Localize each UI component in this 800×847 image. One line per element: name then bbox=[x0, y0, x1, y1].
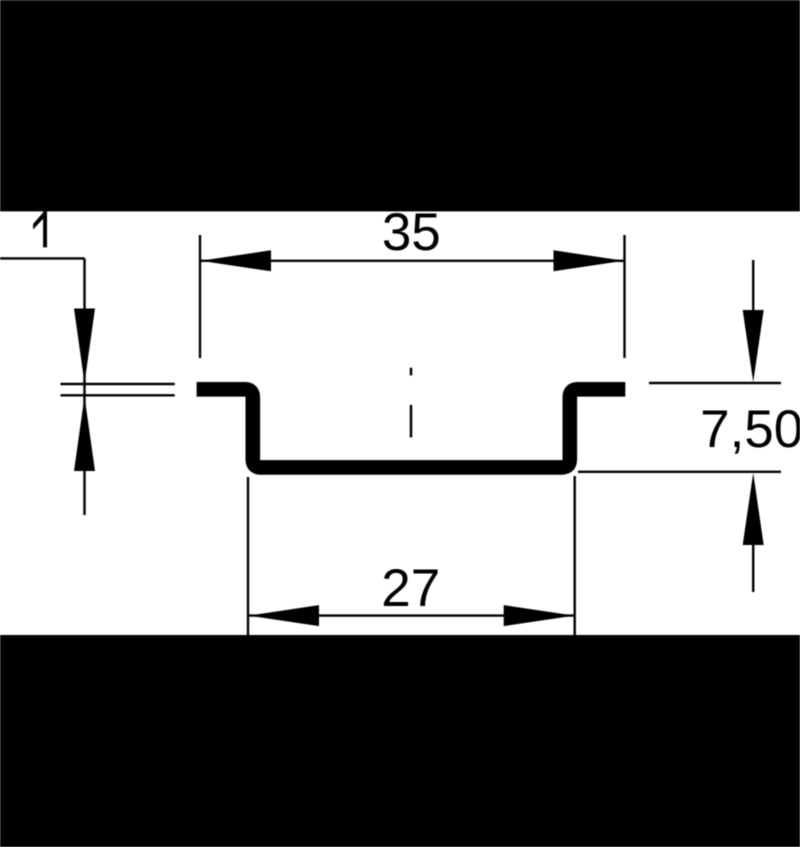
7,50 dim lower arrowhead (up) bbox=[743, 473, 764, 545]
27 dim left arrowhead bbox=[249, 605, 320, 626]
svg-text:35: 35 bbox=[382, 203, 441, 262]
label 1 leader horizontal line bbox=[0, 257, 85, 259]
bottom letterbox bar bbox=[0, 635, 800, 847]
label 1 glyph (drawn, Arial-style without foot serif) bbox=[33, 211, 47, 247]
7,50 dim upper line segment bbox=[752, 260, 754, 312]
35 dim left extension line bbox=[199, 235, 201, 358]
dim 1 upper arrowhead (down) bbox=[74, 309, 95, 384]
7,50 dim lower extension line bbox=[578, 471, 781, 473]
svg-text:7,50: 7,50 bbox=[700, 400, 800, 459]
27 dim left extension line bbox=[247, 477, 249, 636]
35 dim right arrowhead bbox=[554, 250, 625, 271]
dimension 1 vertical line bbox=[83, 258, 85, 515]
material thickness top surface line bbox=[61, 383, 175, 385]
27 dim right extension line bbox=[574, 476, 576, 636]
27 dimension line bbox=[248, 614, 575, 616]
rail centre line bottom dash bbox=[410, 405, 413, 438]
7,50 dim upper extension line bbox=[649, 382, 781, 384]
35 dim right extension line bbox=[623, 235, 625, 358]
rail centre line top dash bbox=[410, 368, 413, 376]
27 dim right arrowhead bbox=[504, 605, 575, 626]
7,50 dim upper arrowhead (down) bbox=[743, 310, 764, 382]
35 dim left arrowhead bbox=[201, 250, 272, 271]
35 dimension line bbox=[200, 260, 625, 262]
top letterbox bar bbox=[0, 0, 800, 211]
svg-text:27: 27 bbox=[381, 559, 440, 618]
dim 1 lower arrowhead (up) bbox=[74, 397, 95, 472]
7,50 dim lower line segment bbox=[752, 540, 754, 592]
material thickness bottom surface line bbox=[61, 394, 175, 396]
DIN rail profile bbox=[197, 389, 626, 467]
